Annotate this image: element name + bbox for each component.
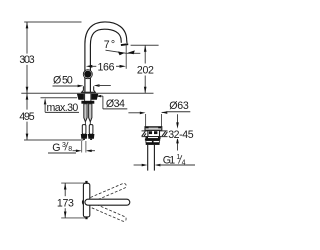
lever pivot cap (82, 199, 85, 205)
7 degree horizontal reference line (126, 52, 140, 54)
O34 leader and label (96, 95, 128, 109)
svg-text:303: 303 (19, 54, 34, 66)
svg-text:32-45: 32-45 (168, 129, 193, 141)
max.30 arrow (44, 98, 47, 112)
mounting plate bar (81, 101, 94, 104)
stud end caps G3/8 (81, 134, 95, 140)
spout top extension line (24, 21, 81, 23)
escutcheon bottom dark band (81, 92, 95, 94)
dim 166 arrow right (116, 65, 126, 68)
mounting hardware below deck (77, 94, 98, 100)
escutcheon base (81, 86, 96, 93)
dim 202 extension line at outlet level (131, 44, 159, 46)
connection studs (82, 125, 93, 135)
dashed lever down position (84, 200, 127, 222)
hatching right (162, 131, 167, 136)
locknut (145, 139, 160, 141)
body bottom stub (85, 217, 87, 220)
svg-text:495: 495 (19, 111, 34, 123)
svg-text:166: 166 (98, 62, 115, 74)
7 degree arc arrowheads (118, 52, 125, 56)
supply hoses (84, 104, 92, 122)
O50 underline-arrow (53, 85, 84, 88)
svg-text:G: G (52, 142, 60, 154)
dim 32-45 vertical (177, 114, 179, 150)
O63 dimension (128, 111, 166, 114)
O63 extension lines (146, 114, 162, 127)
gooseneck spout tube inner curve (90, 29, 121, 93)
svg-text:202: 202 (137, 65, 154, 77)
svg-text:Ø 50: Ø 50 (53, 74, 73, 86)
svg-text:7°: 7° (104, 39, 115, 51)
O50 right arrow (94, 84, 111, 87)
32-45 text (168, 129, 195, 141)
lever knob (front view, circle) (83, 70, 92, 79)
dim 202 vertical line with arrows (144, 45, 146, 93)
gooseneck spout tube outer curve (85, 22, 127, 93)
svg-text:Ø63: Ø63 (169, 100, 189, 112)
dashed lever up position (84, 183, 127, 205)
G 3/8 dimension arrows (73, 150, 96, 152)
G1 1/4 label (163, 154, 186, 167)
dim 303-495 vertical line (26, 22, 28, 140)
495 bottom extension line (24, 139, 84, 141)
G1 1/4 dimension (134, 164, 144, 166)
hatching left (142, 131, 146, 136)
outlet centerline (125, 45, 127, 69)
svg-text:G1: G1 (163, 154, 175, 166)
svg-text:4: 4 (182, 160, 186, 167)
G 3/8 label (48, 142, 76, 154)
washer under deck (146, 137, 160, 139)
tailpipe (148, 145, 155, 171)
stud edge extension lines (82, 141, 86, 153)
body top stub (85, 181, 87, 184)
svg-text:8: 8 (68, 146, 72, 153)
7 degree slanted reference line (106, 50, 127, 53)
solid lever handle (85, 199, 130, 205)
O63 label underline (166, 111, 190, 113)
deck underside line (41, 97, 78, 99)
svg-text:Ø34: Ø34 (106, 98, 125, 110)
dim arrows on 303/495 line (26, 22, 29, 140)
spout outlet face (121, 43, 128, 46)
svg-text:173: 173 (57, 198, 74, 210)
drain plug cap (145, 127, 162, 131)
dim 166 arrow left (86, 65, 96, 68)
173 dimension line (64, 183, 66, 218)
deck cross-section band at drain (142, 131, 168, 137)
drain body in deck (148, 130, 160, 136)
shank lines (85, 94, 91, 101)
173 extension lines (61, 183, 85, 218)
hose thin ends (85, 122, 90, 125)
deck line (21, 92, 153, 94)
cartridge body (top view) (83, 183, 89, 217)
